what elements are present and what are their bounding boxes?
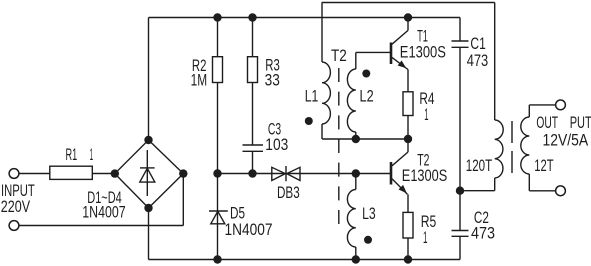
svg-text:1N4007: 1N4007 <box>225 220 273 239</box>
svg-text:1: 1 <box>423 228 428 247</box>
svg-text:T2: T2 <box>331 46 347 65</box>
svg-text:33: 33 <box>265 71 280 90</box>
svg-text:473: 473 <box>471 224 495 243</box>
svg-text:1N4007: 1N4007 <box>82 202 125 221</box>
svg-text:PUT: PUT <box>570 113 591 132</box>
svg-text:473: 473 <box>467 51 489 70</box>
svg-text:120T: 120T <box>466 156 492 175</box>
svg-text:1: 1 <box>90 145 94 164</box>
svg-text:12V/5A: 12V/5A <box>543 131 589 150</box>
svg-text:103: 103 <box>265 135 288 154</box>
svg-text:E1300S: E1300S <box>402 166 448 185</box>
svg-text:1M: 1M <box>191 70 208 89</box>
svg-text:L2: L2 <box>360 87 374 106</box>
svg-text:L1: L1 <box>305 87 319 106</box>
svg-text:R1: R1 <box>66 145 78 164</box>
svg-text:1: 1 <box>424 105 428 124</box>
svg-text:OUT: OUT <box>536 113 558 132</box>
svg-text:DB3: DB3 <box>277 183 300 202</box>
svg-text:L3: L3 <box>362 204 376 223</box>
svg-text:12T: 12T <box>534 156 553 175</box>
svg-text:E1300S: E1300S <box>400 43 446 62</box>
svg-text:220V: 220V <box>1 197 31 216</box>
